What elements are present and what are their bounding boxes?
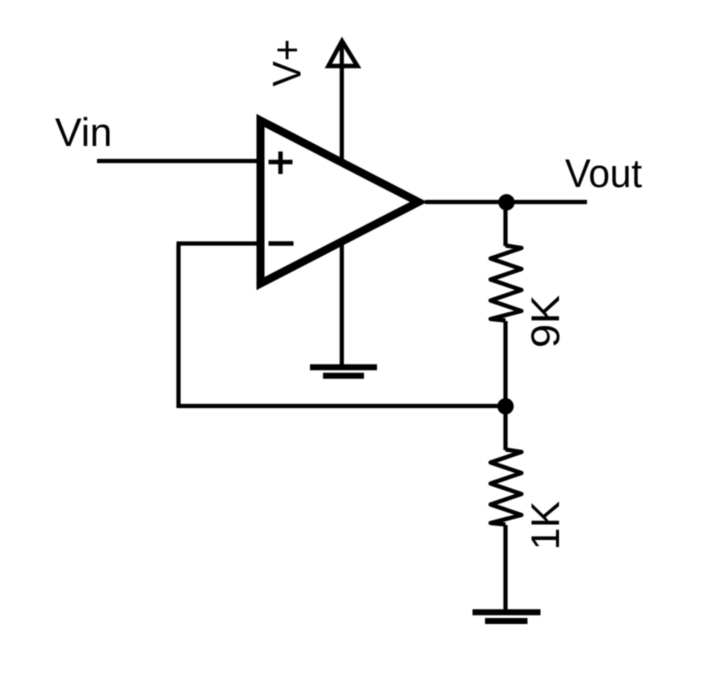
op-amp U1 (261, 121, 419, 284)
power arrow (328, 41, 357, 66)
wire output dot to R1 (503, 202, 507, 246)
wire feedback to - input (177, 241, 263, 245)
svg-text:V+: V+ (266, 39, 310, 87)
wire R1 to feedback dot (503, 321, 507, 407)
wire feedback bottom horizontal (179, 404, 506, 408)
svg-text:9K: 9K (524, 295, 568, 348)
wire feedback vertical left (176, 244, 180, 409)
resistor 9K (491, 246, 522, 321)
node dot output (498, 194, 514, 210)
wire Vin to + input (97, 159, 262, 163)
ground (op-amp) (310, 367, 377, 376)
svg-text:1K: 1K (524, 501, 568, 550)
ground (bottom) (473, 612, 541, 621)
wire power top (340, 42, 344, 159)
wire R2 to ground (503, 525, 507, 612)
op-amp - input symbol (269, 241, 294, 246)
wire output (425, 200, 587, 204)
svg-text:Vout: Vout (565, 152, 642, 196)
svg-text:Vin: Vin (55, 111, 112, 155)
wire power bottom (V- pin) (340, 244, 344, 366)
resistor 1K (491, 450, 522, 525)
op-amp + input symbol (269, 152, 293, 175)
node dot feedback (497, 398, 513, 414)
wire feedback dot to R2 (503, 406, 507, 450)
